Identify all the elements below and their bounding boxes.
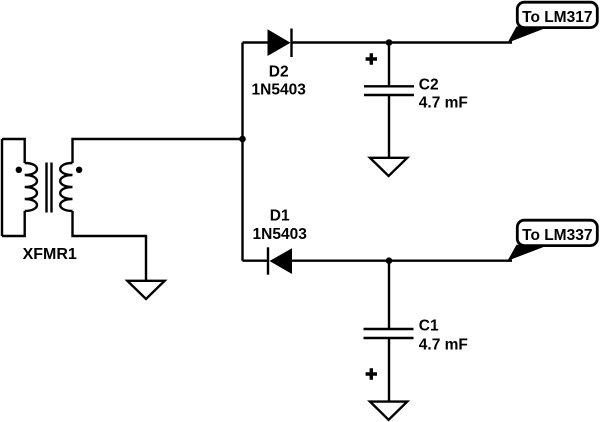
diode D1	[268, 247, 292, 274]
svg-text:To LM317: To LM317	[522, 9, 592, 26]
svg-text:XFMR1: XFMR1	[23, 246, 77, 263]
wire secondary bottom to ground	[73, 211, 147, 281]
wire primary left vertical	[1, 139, 3, 236]
svg-text:4.7 mF: 4.7 mF	[419, 336, 468, 353]
svg-text:4.7 mF: 4.7 mF	[419, 94, 468, 111]
wire D2 anode stub	[243, 41, 269, 43]
ground (transformer secondary)	[127, 281, 164, 299]
svg-text:To LM337: To LM337	[522, 227, 592, 244]
ground (C1)	[370, 402, 407, 420]
capacitor C2 polarity plus	[366, 53, 377, 64]
transformer XFMR1 core	[47, 163, 52, 213]
net flag To LM337	[508, 220, 598, 261]
capacitor C2	[364, 86, 414, 95]
capacitor C1 polarity plus	[366, 368, 377, 379]
wire bottom rail to flag	[292, 260, 512, 262]
ground (C2)	[370, 158, 407, 176]
junction node C (D1 anode / C1)	[386, 257, 393, 264]
junction node A (secondary to center column)	[239, 136, 246, 143]
capacitor C1	[364, 329, 414, 338]
transformer XFMR1 secondary winding	[60, 163, 72, 211]
net flag To LM317	[508, 2, 598, 43]
svg-text:C2: C2	[419, 76, 439, 93]
svg-text:D1: D1	[270, 208, 290, 225]
transformer XFMR1 secondary polarity dot	[76, 167, 82, 173]
wire C2 top stem	[388, 43, 390, 86]
diode D2	[268, 29, 292, 58]
wire C1 top stem	[388, 261, 390, 328]
wire primary bottom	[2, 211, 25, 236]
transformer XFMR1 primary winding	[25, 163, 37, 211]
wire C2 bottom stem to ground	[388, 96, 390, 158]
svg-text:1N5403: 1N5403	[253, 226, 308, 243]
wire C1 bottom stem to ground	[388, 339, 390, 402]
svg-text:D2: D2	[269, 64, 289, 81]
svg-text:C1: C1	[419, 318, 439, 335]
wire center column	[241, 43, 243, 261]
wire D1 cathode stub	[243, 260, 269, 262]
wire primary top	[2, 139, 25, 163]
svg-text:1N5403: 1N5403	[252, 82, 307, 99]
junction node B (D2 cathode / C2)	[386, 39, 393, 46]
wire top rail to flag	[292, 41, 513, 43]
transformer XFMR1 primary polarity dot	[16, 167, 22, 173]
wire secondary top to node A	[73, 139, 243, 163]
